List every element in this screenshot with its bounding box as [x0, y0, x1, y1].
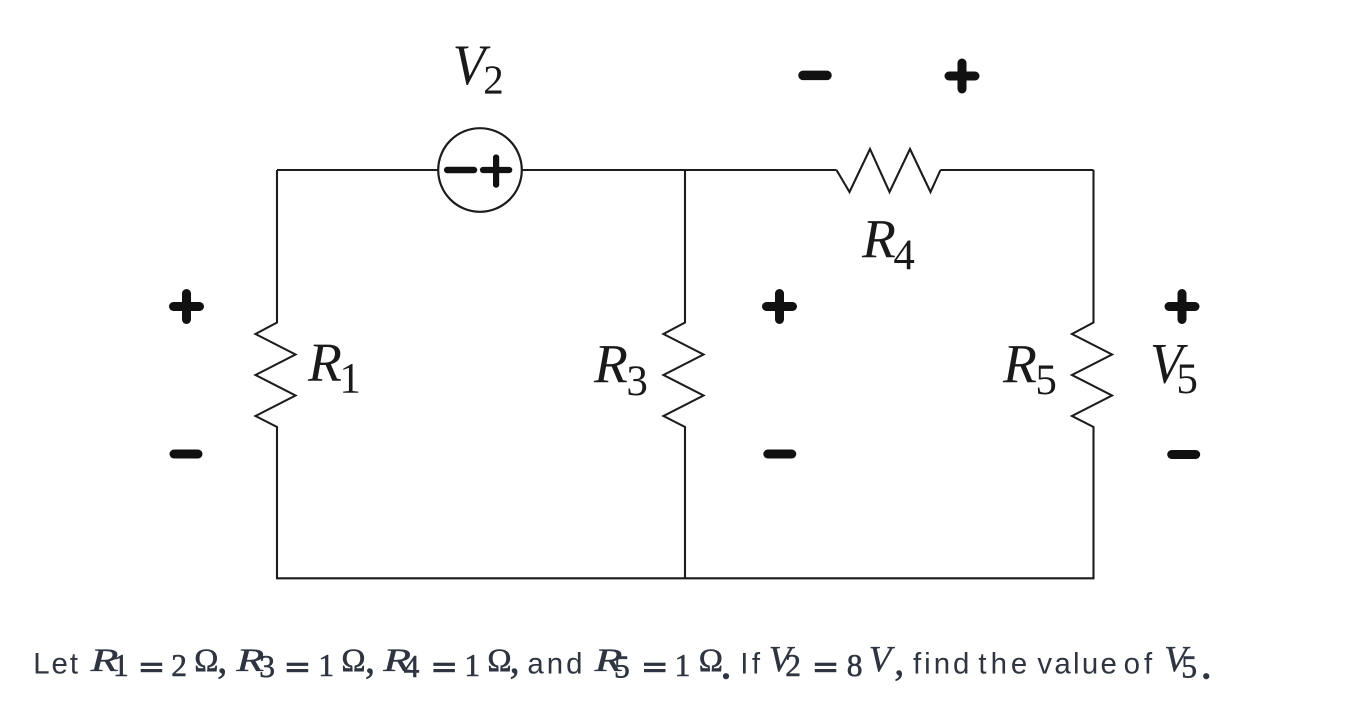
- svg-text:4: 4: [893, 232, 915, 279]
- svg-text:2: 2: [785, 648, 801, 683]
- svg-text:1: 1: [113, 648, 129, 683]
- svg-text:2: 2: [171, 648, 187, 683]
- svg-text:of: of: [1124, 647, 1157, 680]
- svg-text:1: 1: [675, 648, 691, 683]
- svg-text:R: R: [307, 333, 342, 394]
- svg-text:,: ,: [510, 636, 520, 681]
- svg-text:the: the: [978, 647, 1031, 680]
- svg-text:Ω: Ω: [487, 643, 511, 679]
- svg-text:Ω: Ω: [341, 643, 365, 679]
- svg-text:5: 5: [1176, 356, 1198, 403]
- svg-text:and: and: [527, 647, 585, 680]
- svg-text:1: 1: [339, 356, 361, 403]
- svg-text:value: value: [1037, 647, 1119, 680]
- svg-text:V: V: [869, 640, 896, 681]
- svg-text:Let: Let: [33, 647, 80, 680]
- svg-text:R: R: [593, 334, 628, 395]
- svg-text:1: 1: [464, 648, 480, 683]
- svg-text:find: find: [913, 647, 972, 680]
- svg-text:Ω: Ω: [194, 643, 218, 679]
- svg-text:R: R: [1002, 334, 1037, 395]
- svg-text:3: 3: [259, 649, 275, 684]
- svg-text:R: R: [861, 209, 896, 270]
- svg-text:1: 1: [318, 648, 334, 683]
- svg-text:5: 5: [614, 649, 630, 684]
- svg-text:5: 5: [1181, 649, 1197, 684]
- svg-text:8: 8: [847, 648, 863, 683]
- svg-text:5: 5: [1035, 357, 1057, 404]
- svg-text:,: ,: [365, 636, 375, 681]
- svg-text:,: ,: [217, 636, 227, 681]
- svg-text:,: ,: [894, 639, 904, 684]
- svg-text:.: .: [720, 636, 732, 689]
- svg-text:.: .: [1200, 636, 1212, 689]
- svg-text:4: 4: [404, 649, 420, 684]
- svg-text:If: If: [740, 647, 763, 680]
- svg-text:2: 2: [483, 57, 504, 103]
- svg-text:3: 3: [626, 358, 648, 405]
